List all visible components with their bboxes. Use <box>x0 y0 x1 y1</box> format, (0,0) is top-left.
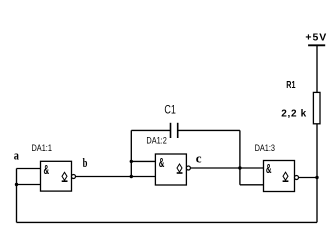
wire node a top input <box>17 168 41 170</box>
wire bottom feedback <box>17 221 318 223</box>
svg-text:DA1:3: DA1:3 <box>255 143 275 153</box>
svg-text:2,2 k: 2,2 k <box>281 108 306 119</box>
svg-text:c: c <box>196 151 202 166</box>
wire capacitor right <box>178 129 240 131</box>
power +5V terminal <box>305 31 326 45</box>
wire DA1:3 output <box>299 177 318 179</box>
svg-text:&: & <box>266 162 272 176</box>
svg-text:DA1:2: DA1:2 <box>146 136 166 146</box>
junction <box>15 183 18 186</box>
wire DA1:3 bottom input <box>240 184 264 186</box>
gate DA1:3 <box>255 143 299 192</box>
svg-text:a: a <box>14 148 20 163</box>
capacitor C1 <box>164 103 177 139</box>
wire DA1:2 top input <box>131 160 155 162</box>
wire +5V to resistor <box>316 45 318 92</box>
junction <box>315 176 318 179</box>
wire node a bottom input <box>17 184 41 186</box>
wire capacitor left <box>131 129 170 131</box>
svg-text:+5V: +5V <box>305 31 326 43</box>
gate DA1:1 <box>32 143 76 191</box>
wire left vertical <box>16 169 18 223</box>
junction <box>130 160 133 163</box>
svg-text:DA1:1: DA1:1 <box>32 143 52 153</box>
wire mid vertical <box>130 130 132 176</box>
gate DA1:2 <box>146 136 190 185</box>
svg-text:R1: R1 <box>286 80 295 91</box>
wire right-mid vertical <box>239 130 241 184</box>
wire DA1:1 output to node b <box>76 176 156 178</box>
wire DA1:2 output to node c <box>190 167 263 169</box>
svg-text:C1: C1 <box>164 103 176 117</box>
svg-text:b: b <box>83 155 88 170</box>
resistor R1 <box>281 80 320 124</box>
wire resistor down to feedback <box>316 124 318 223</box>
junction <box>238 166 241 169</box>
svg-text:&: & <box>159 156 165 170</box>
svg-text:&: & <box>44 163 50 177</box>
junction <box>130 175 133 178</box>
